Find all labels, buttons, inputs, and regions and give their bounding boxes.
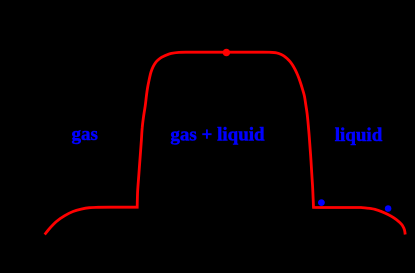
- critical point: [223, 49, 231, 57]
- phase-boundary curve (red isotherm): [45, 52, 406, 234]
- svg-text:gas + liquid: gas + liquid: [170, 124, 265, 145]
- blue dot right: [385, 205, 392, 212]
- svg-text:gas: gas: [71, 124, 97, 145]
- svg-text:liquid: liquid: [335, 125, 383, 146]
- blue dot left: [318, 199, 325, 206]
